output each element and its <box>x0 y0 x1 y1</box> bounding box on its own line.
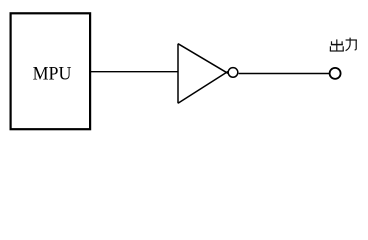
svg-text:MPU: MPU <box>33 64 72 85</box>
